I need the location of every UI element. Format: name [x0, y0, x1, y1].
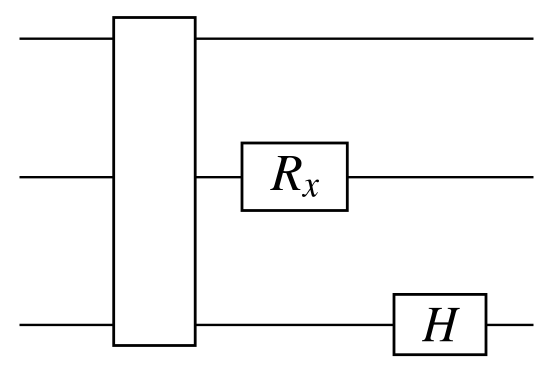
- wire q2: [20, 324, 534, 326]
- wire q0: [20, 38, 534, 40]
- wire q1: [20, 176, 534, 178]
- gate Rx label subscript x: [302, 180, 319, 197]
- gate H box: [394, 294, 486, 354]
- gate Rx box: [242, 143, 347, 211]
- gate H label: [422, 308, 460, 341]
- gate Rx label R: [270, 156, 301, 190]
- multi-qubit gate U1: [114, 18, 196, 346]
